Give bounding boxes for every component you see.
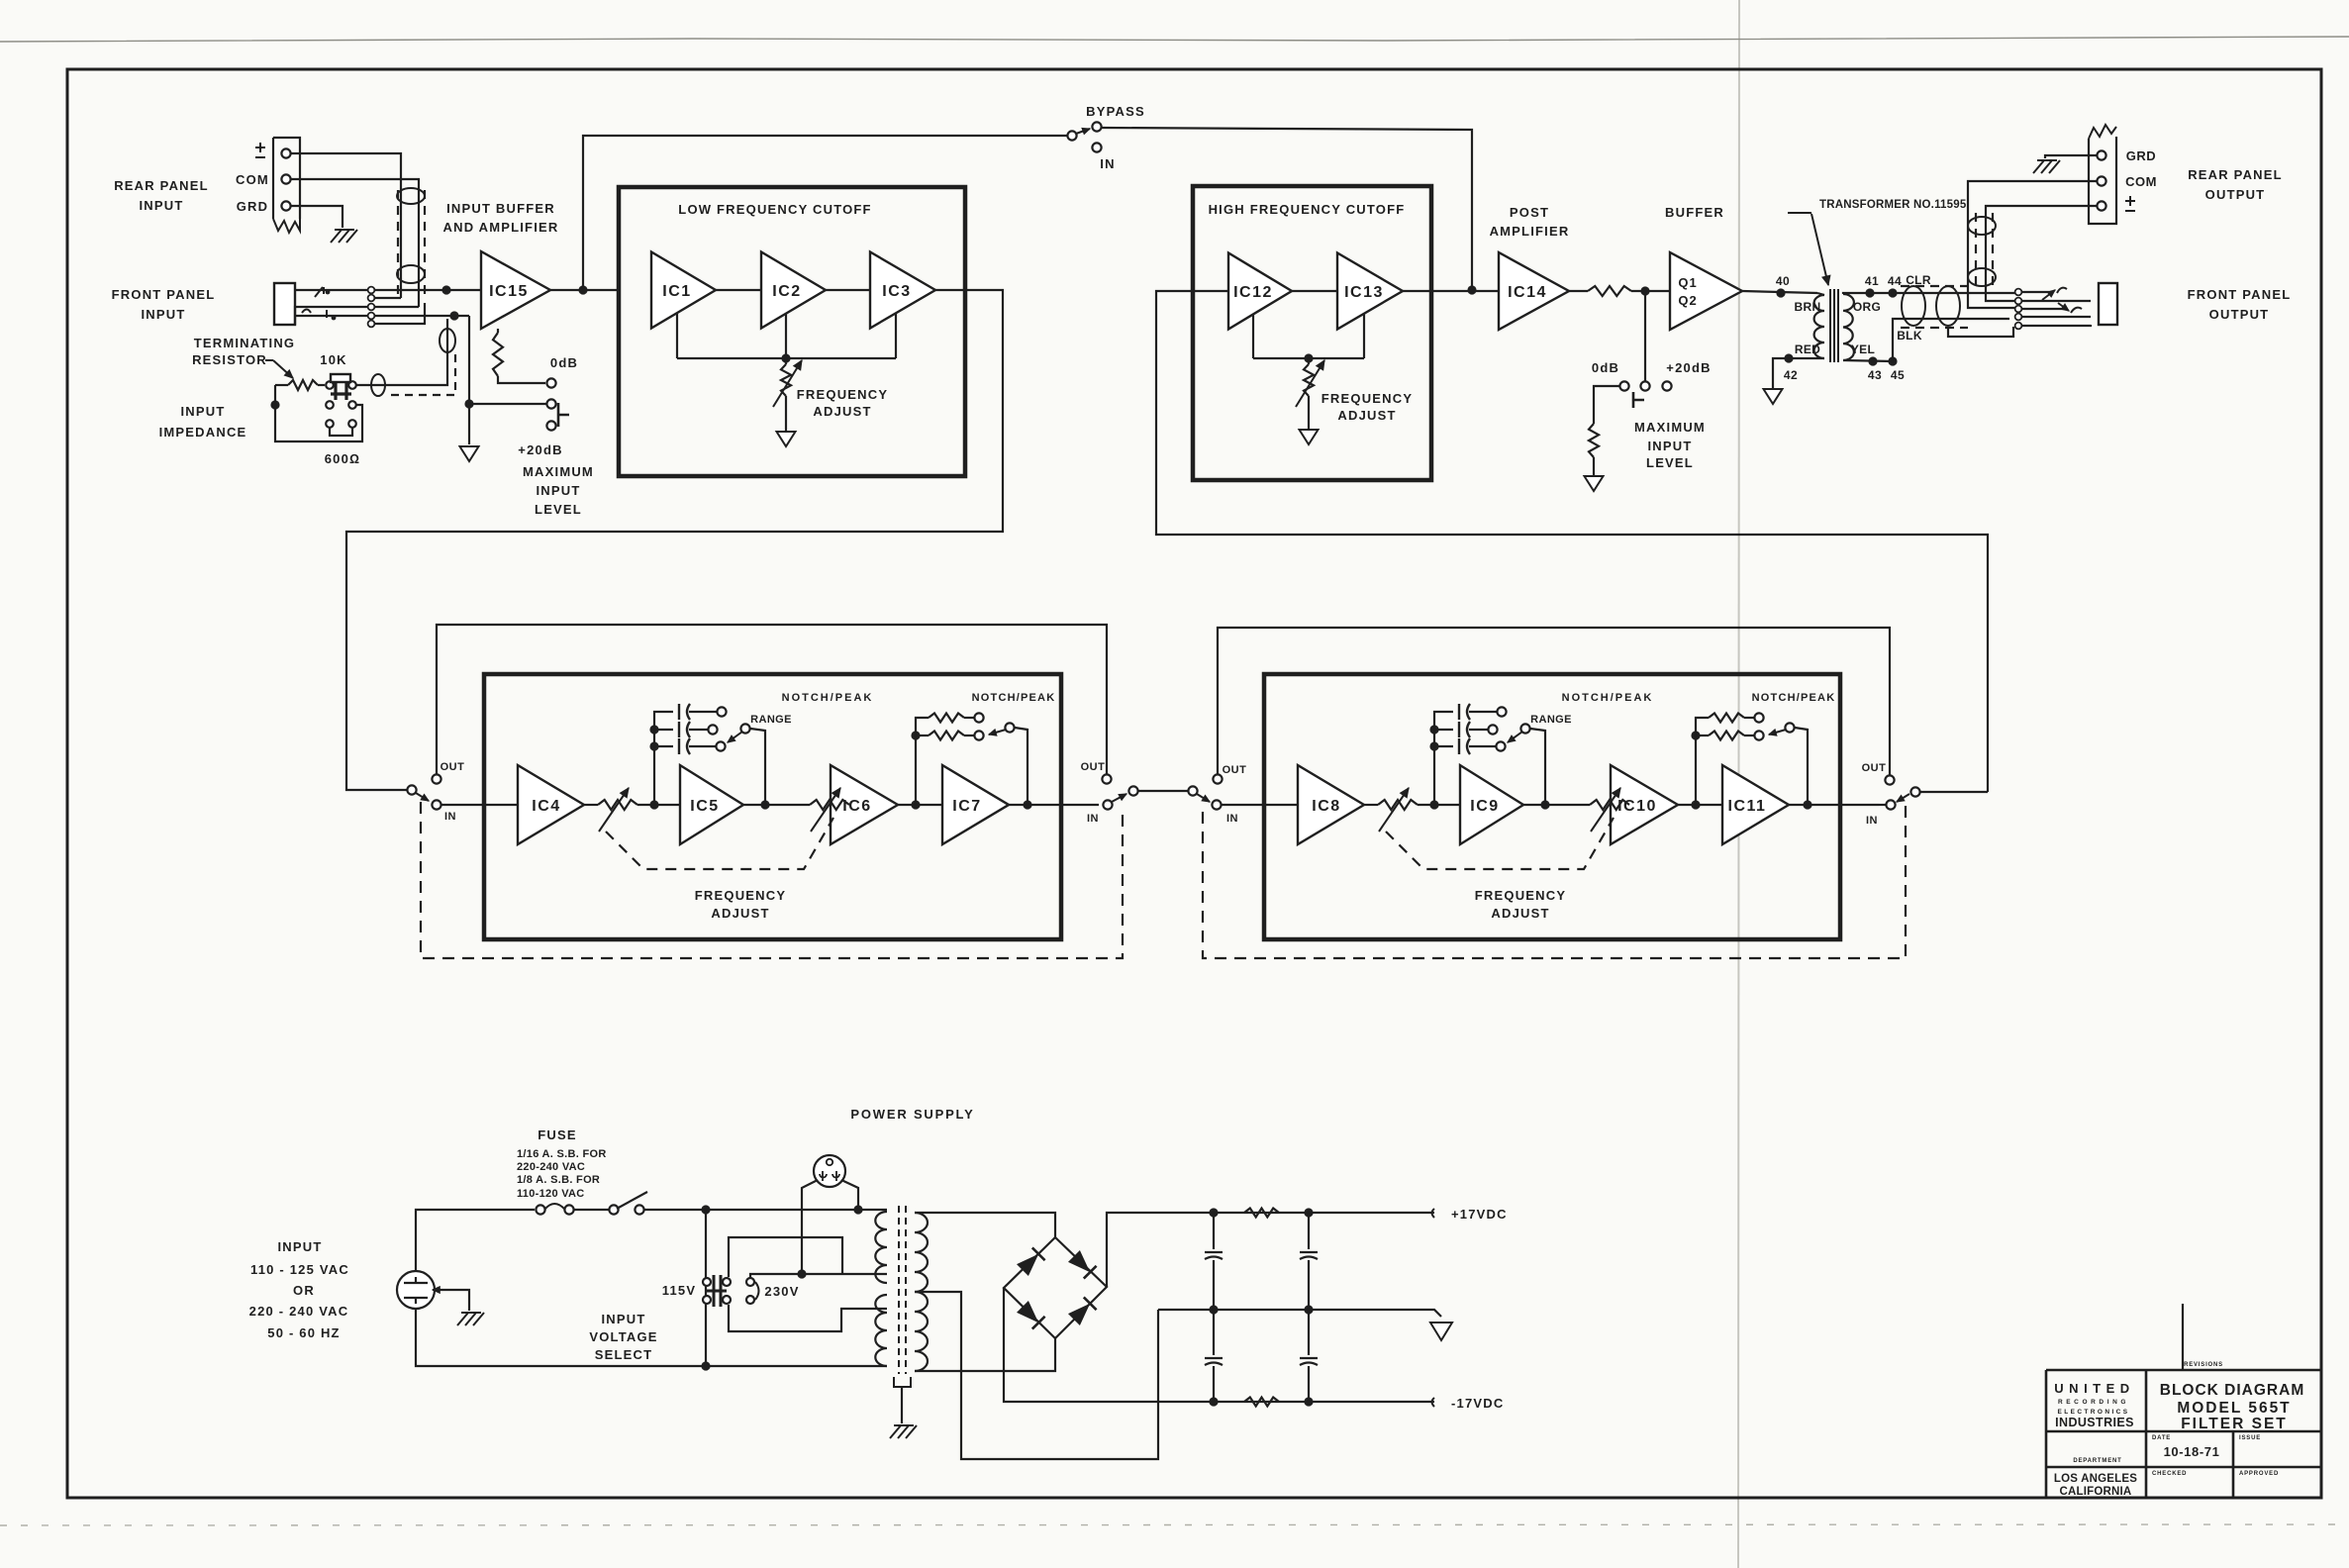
wire rear COM — [1968, 181, 2097, 308]
svg-text:OUTPUT: OUTPUT — [2209, 307, 2270, 322]
jack sleeve wires — [295, 307, 367, 325]
front input jack body — [274, 283, 295, 325]
svg-text:220 - 240 VAC: 220 - 240 VAC — [249, 1304, 349, 1319]
node mid rail 1 — [1209, 1305, 1218, 1314]
wire secondary bottom to bridge — [915, 1338, 1055, 1371]
svg-text:IN: IN — [1087, 813, 1099, 825]
wire IC2 to IC3 — [826, 289, 870, 291]
dashed gang frequency adjust — [1386, 818, 1614, 869]
capacitor range 1 — [1459, 704, 1470, 720]
fuse F1 — [536, 1205, 544, 1214]
paper bottom perforation — [0, 1524, 2349, 1525]
diode D1 — [1017, 1254, 1038, 1276]
terminal rear out plus-minus — [2097, 201, 2105, 210]
svg-text:OR: OR — [293, 1283, 315, 1298]
selector wiring tap — [750, 1274, 887, 1278]
contact notch 1 — [1754, 713, 1763, 722]
dashed link section1 — [421, 802, 1123, 958]
wire IC11 to end switch — [1879, 804, 1886, 806]
wire shield to BLK row — [1948, 327, 2013, 337]
wire range switch to line — [750, 729, 765, 805]
svg-text:INPUT: INPUT — [278, 1239, 323, 1254]
svg-text:IC15: IC15 — [489, 283, 529, 300]
svg-text:DATE: DATE — [2152, 1435, 2171, 1441]
wire end switch to return — [1920, 791, 1988, 793]
wire IC13 output to post amp — [1403, 290, 1499, 292]
node cap row2 — [649, 725, 658, 734]
svg-text:41: 41 — [1865, 274, 1879, 288]
wire IC3 output to loop — [346, 290, 1003, 790]
wire ac hot — [416, 1210, 535, 1271]
wire IC13 feedback stub — [1363, 314, 1365, 358]
svg-text:ISSUE: ISSUE — [2239, 1435, 2261, 1441]
bridge rectifier — [1004, 1237, 1107, 1338]
svg-text:IN: IN — [444, 811, 456, 823]
svg-text:ADJUST: ADJUST — [1337, 408, 1396, 423]
svg-text:REAR PANEL: REAR PANEL — [114, 178, 209, 193]
wire impedance left rail — [275, 385, 362, 441]
rear cable shield loop upper — [1968, 217, 1996, 235]
svg-text:TERMINATING: TERMINATING — [194, 336, 296, 350]
svg-text:INPUT: INPUT — [537, 483, 581, 498]
svg-text:BUFFER: BUFFER — [1665, 205, 1724, 220]
op-amp IC1 — [651, 252, 716, 329]
contact section1 out right — [1102, 774, 1111, 783]
wire feedback bus — [677, 357, 896, 359]
cable shield loop upper — [397, 188, 425, 204]
wire bridge minus riser — [1004, 1288, 1214, 1402]
node minus rail 1 — [1209, 1397, 1218, 1406]
node res row2 — [1691, 731, 1700, 739]
wire lamp left — [802, 1180, 818, 1274]
svg-text:+17VDC: +17VDC — [1451, 1207, 1508, 1222]
wire IC12 feedback stub — [1252, 315, 1254, 358]
svg-text:COM: COM — [236, 172, 269, 187]
svg-text:POWER SUPPLY: POWER SUPPLY — [850, 1107, 974, 1122]
jack contact pins — [368, 287, 375, 294]
contact notch 2 — [974, 731, 983, 739]
wire pad to ground resistor — [1594, 386, 1620, 424]
switch BYPASS — [1067, 131, 1076, 140]
svg-text:IN: IN — [1100, 156, 1115, 171]
wire 20dB pad drop — [1644, 291, 1646, 381]
wire amp2 out — [743, 804, 810, 806]
contacts output pad — [1619, 381, 1628, 390]
contact range 1 — [717, 707, 726, 716]
voltage selector 230V contacts — [746, 1278, 754, 1286]
svg-text:RANGE: RANGE — [1530, 714, 1572, 726]
resistor notch 2 — [1696, 735, 1709, 736]
op-amp IC5 — [680, 765, 743, 844]
wire res bank riser — [916, 718, 929, 805]
contact range 1 — [1497, 707, 1506, 716]
node cap row3 — [649, 741, 658, 750]
ac line plug — [397, 1271, 435, 1309]
svg-text:0dB: 0dB — [550, 355, 578, 370]
wire cap bank riser — [654, 712, 673, 805]
wire to 0dB contact — [498, 376, 545, 383]
wire IC3 feedback stub — [895, 314, 897, 358]
capacitor C4 — [1308, 1310, 1310, 1355]
svg-text:44: 44 — [1888, 274, 1902, 288]
node bypass rejoin — [1467, 285, 1476, 294]
op-amp IC8 — [1298, 765, 1364, 844]
wire bypass to post amp — [1102, 128, 1472, 290]
svg-text:IC5: IC5 — [690, 798, 719, 815]
leader arrow to resistor — [265, 359, 273, 361]
svg-text:IC14: IC14 — [1508, 284, 1547, 301]
terminal pin plus-minus — [281, 148, 290, 157]
op-amp IC9 — [1460, 765, 1523, 844]
wire pad resistor to ground — [1593, 457, 1595, 475]
svg-text:RESISTOR: RESISTOR — [192, 352, 267, 367]
cable loop at switch — [371, 374, 385, 396]
node pin 44 — [1888, 288, 1897, 297]
ground rear output — [2033, 160, 2060, 173]
svg-text:BLK: BLK — [1897, 329, 1922, 343]
svg-text:INPUT: INPUT — [1648, 439, 1693, 453]
svg-text:ADJUST: ADJUST — [711, 906, 769, 921]
svg-text:IC2: IC2 — [772, 283, 801, 300]
svg-text:APPROVED: APPROVED — [2239, 1471, 2279, 1477]
wire amp3 out — [898, 804, 942, 806]
wire rear GRD to ground — [2045, 155, 2097, 158]
wire to voltage select — [643, 1209, 887, 1211]
svg-text:IN: IN — [1866, 815, 1878, 827]
block LOW FREQUENCY CUTOFF — [619, 187, 965, 476]
svg-text:MAXIMUM: MAXIMUM — [523, 464, 594, 479]
title block frame — [2046, 1370, 2320, 1498]
variable resistor freq 2 — [810, 800, 849, 810]
mid rail 0V — [1158, 1310, 1441, 1317]
svg-text:AND AMPLIFIER: AND AMPLIFIER — [443, 220, 559, 235]
wire to +20dB contact — [469, 403, 546, 405]
contact section1 out — [432, 774, 440, 783]
contact range 2 — [1488, 725, 1497, 734]
node max input level tap — [1640, 286, 1649, 295]
wire IC2 feedback stub — [785, 314, 787, 358]
svg-text:OUT: OUT — [1081, 761, 1106, 773]
svg-text:10-18-71: 10-18-71 — [2164, 1444, 2220, 1459]
terminal pin COM — [281, 174, 290, 183]
switch RANGE — [1520, 724, 1529, 733]
wire rear plus — [1986, 206, 2097, 301]
svg-text:IC1: IC1 — [662, 283, 691, 300]
svg-text:GRD: GRD — [237, 199, 269, 214]
svg-text:FREQUENCY: FREQUENCY — [1321, 391, 1413, 406]
svg-text:AMPLIFIER: AMPLIFIER — [1490, 224, 1570, 239]
svg-text:ELECTRONICS: ELECTRONICS — [2058, 1409, 2130, 1416]
svg-text:RANGE: RANGE — [750, 714, 792, 726]
svg-text:+20dB: +20dB — [1666, 360, 1711, 375]
svg-text:VOLTAGE: VOLTAGE — [589, 1329, 657, 1344]
svg-text:45: 45 — [1891, 368, 1905, 382]
wire secondary top — [1843, 293, 2015, 294]
wire IC14 output — [1569, 290, 1588, 292]
page fold crease line — [1738, 0, 1739, 1568]
svg-text:1/16 A. S.B. FOR: 1/16 A. S.B. FOR — [517, 1148, 607, 1160]
wire rear plus to cable — [291, 153, 401, 298]
variable resistor freq 1 — [1378, 800, 1418, 810]
wire notch switch drop — [1795, 728, 1808, 805]
switch RANGE — [740, 724, 749, 733]
wire secondary top to bridge — [915, 1213, 1055, 1237]
svg-text:IC8: IC8 — [1312, 798, 1340, 815]
svg-text:MODEL 565T: MODEL 565T — [2177, 1400, 2291, 1417]
label -17VDC — [1432, 1398, 1435, 1407]
front output ring wires — [2022, 308, 2065, 310]
wire section1 bypass — [437, 625, 1107, 774]
switch section2 output — [1886, 800, 1895, 809]
node plus rail 2 — [1304, 1208, 1313, 1217]
node cap bank tap — [1429, 800, 1438, 809]
contact range 3 — [716, 741, 725, 750]
node pin 41 — [1865, 288, 1874, 297]
capacitor range 2 — [654, 729, 673, 731]
svg-text:INPUT: INPUT — [142, 307, 186, 322]
svg-text:IMPEDANCE: IMPEDANCE — [159, 425, 247, 440]
svg-text:50 - 60 HZ: 50 - 60 HZ — [267, 1325, 340, 1340]
svg-text:YEL: YEL — [1851, 343, 1875, 356]
label +17VDC — [1432, 1209, 1435, 1218]
capacitor range 1 — [679, 704, 690, 720]
wire cap bank riser — [1434, 712, 1453, 805]
variable resistor frequency adjust LF — [785, 358, 787, 364]
resistor minus rail — [1244, 1398, 1279, 1407]
wire into IC8 — [1222, 804, 1298, 806]
wire tip to IC15 input — [375, 289, 481, 291]
svg-text:BRN: BRN — [1795, 300, 1821, 314]
svg-text:IC3: IC3 — [882, 283, 911, 300]
node select top — [701, 1205, 710, 1214]
wire ring junction — [375, 315, 469, 317]
svg-text:SELECT: SELECT — [595, 1347, 652, 1362]
switch section1 input — [407, 785, 416, 794]
svg-text:IC6: IC6 — [842, 798, 871, 815]
svg-text:FREQUENCY: FREQUENCY — [695, 888, 786, 903]
wire amp4 out — [1009, 804, 1099, 806]
rear input connector strip — [273, 138, 300, 219]
svg-text:INPUT BUFFER: INPUT BUFFER — [446, 201, 555, 216]
transformer T2 shield to ground — [894, 1377, 911, 1387]
wire feedback bus HF — [1253, 357, 1364, 359]
minus rail — [1214, 1401, 1434, 1403]
cable shield loop lower — [397, 265, 425, 283]
svg-text:RED: RED — [1795, 343, 1820, 356]
resistor notch 1 — [1709, 714, 1744, 723]
capacitor range 3 — [654, 745, 673, 747]
pilot lamp — [814, 1155, 845, 1187]
node res row2 — [911, 731, 920, 739]
svg-text:OUT: OUT — [1862, 762, 1887, 774]
wire IC1 to IC2 — [716, 289, 761, 291]
resistor post amp — [1588, 286, 1631, 296]
svg-text:IC7: IC7 — [952, 798, 981, 815]
node impedance rail — [270, 400, 279, 409]
svg-text:BLOCK DIAGRAM: BLOCK DIAGRAM — [2160, 1382, 2304, 1399]
switch power — [609, 1205, 618, 1214]
front output sleeve wire — [2022, 325, 2091, 326]
svg-text:OUT: OUT — [440, 761, 465, 773]
node plus rail 1 — [1209, 1208, 1218, 1217]
front output tip wires — [2022, 291, 2049, 293]
op-amp IC7 — [942, 765, 1009, 844]
svg-text:POST: POST — [1510, 205, 1549, 220]
wire amp1 to varres — [584, 804, 598, 806]
wire bypass riser — [583, 136, 1067, 290]
wire IC12 to IC13 — [1292, 290, 1337, 292]
svg-text:COM: COM — [2125, 174, 2157, 189]
svg-text:ORG: ORG — [1853, 300, 1881, 314]
wire amp4 out — [1789, 804, 1879, 806]
node pin 43 — [1868, 356, 1877, 365]
svg-text:FUSE: FUSE — [538, 1127, 576, 1142]
svg-text:1/8 A. S.B. FOR: 1/8 A. S.B. FOR — [517, 1174, 600, 1186]
capacitor range 3 — [1434, 745, 1453, 747]
svg-text:FREQUENCY: FREQUENCY — [1475, 888, 1566, 903]
output cable shield loop 1 — [1902, 286, 1925, 326]
contact section2 out right — [1885, 775, 1894, 784]
dashed gang frequency adjust — [606, 818, 833, 869]
svg-text:FRONT PANEL: FRONT PANEL — [2188, 287, 2292, 302]
svg-text:REAR PANEL: REAR PANEL — [2188, 167, 2283, 182]
diode D2 — [1068, 1250, 1090, 1272]
wire ring node down to ground — [468, 316, 470, 444]
node pin 40 — [1776, 288, 1785, 297]
output cable shield dashed — [1901, 285, 1968, 287]
svg-text:ADJUST: ADJUST — [813, 404, 871, 419]
op-amp IC10 — [1611, 765, 1678, 844]
node range tap — [760, 800, 769, 809]
svg-text:IC13: IC13 — [1344, 284, 1384, 301]
svg-text:HIGH FREQUENCY CUTOFF: HIGH FREQUENCY CUTOFF — [1209, 202, 1406, 217]
svg-text:CHECKED: CHECKED — [2152, 1471, 2187, 1477]
op-amp IC13 — [1337, 253, 1403, 330]
svg-text:IC11: IC11 — [1728, 798, 1767, 815]
wire to ground HF — [1308, 396, 1310, 430]
transformer T1 core — [1829, 289, 1831, 362]
svg-text:LOW FREQUENCY CUTOFF: LOW FREQUENCY CUTOFF — [678, 202, 871, 217]
transformer T1 primary — [1817, 293, 1824, 295]
wire amp1 to varres — [1364, 804, 1378, 806]
wire section return to HF input — [1156, 291, 1988, 792]
svg-text:FREQUENCY: FREQUENCY — [797, 387, 888, 402]
svg-text:IN: IN — [1226, 813, 1238, 825]
variable resistor freq 2 — [1590, 800, 1629, 810]
transformer T2 secondary — [915, 1213, 928, 1371]
node select bottom — [701, 1361, 710, 1370]
svg-text:OUT: OUT — [1223, 764, 1247, 776]
svg-text:Q1: Q1 — [1678, 275, 1697, 290]
revisions divider — [2182, 1304, 2184, 1370]
svg-text:MAXIMUM: MAXIMUM — [1634, 420, 1706, 435]
node IC15 output bypass tap — [578, 285, 587, 294]
switch NOTCH/PEAK — [1785, 723, 1794, 732]
rear cable shield loop lower — [1968, 268, 1996, 286]
contact notch 2 — [1754, 731, 1763, 739]
transistors Q1 Q2 buffer — [1670, 252, 1742, 330]
node minus rail 2 — [1304, 1397, 1313, 1406]
node mid rail 2 — [1304, 1305, 1313, 1314]
svg-text:IC12: IC12 — [1233, 284, 1273, 301]
node jack ring junction — [449, 311, 458, 320]
front output jack pins — [2015, 289, 2022, 296]
ground pad — [1585, 476, 1604, 491]
block HIGH FREQUENCY CUTOFF — [1193, 186, 1431, 480]
ground input stage — [460, 446, 479, 461]
ground HF box — [1300, 430, 1319, 444]
wire buffer output — [1742, 291, 1817, 293]
svg-text:ADJUST: ADJUST — [1491, 906, 1549, 921]
front output jack body — [2099, 283, 2117, 325]
node resistor bank tap — [911, 800, 920, 809]
contact +20dB input switch — [546, 399, 555, 408]
wire amp3 out — [1678, 804, 1722, 806]
svg-text:110-120 VAC: 110-120 VAC — [517, 1188, 585, 1200]
svg-text:600Ω: 600Ω — [325, 451, 360, 466]
transformer T2 primary — [875, 1212, 887, 1283]
svg-text:INPUT: INPUT — [602, 1312, 646, 1326]
svg-text:REVISIONS: REVISIONS — [2184, 1362, 2223, 1368]
svg-text:DEPARTMENT: DEPARTMENT — [2073, 1458, 2121, 1464]
rear output connector strip — [2089, 137, 2116, 224]
svg-text:40: 40 — [1776, 274, 1790, 288]
transformer T1 secondary — [1843, 294, 1854, 360]
wire res bank riser — [1696, 718, 1709, 805]
wire to buffer — [1631, 290, 1670, 292]
svg-text:INPUT: INPUT — [140, 198, 184, 213]
svg-text:LEVEL: LEVEL — [1646, 455, 1694, 470]
node notch switch join — [1803, 800, 1811, 809]
node jack tip junction — [441, 285, 450, 294]
ground transformer primary — [1764, 389, 1783, 404]
svg-text:NOTCH/PEAK: NOTCH/PEAK — [1752, 692, 1836, 704]
svg-text:INDUSTRIES: INDUSTRIES — [2055, 1416, 2134, 1429]
block notch-peak filter IC4-IC7 — [484, 674, 1061, 939]
dashed link section2 — [1203, 804, 1906, 958]
wire primary return to ground — [1773, 358, 1824, 388]
svg-text:OUTPUT: OUTPUT — [2205, 187, 2266, 202]
wire secondary center tap — [915, 1292, 1158, 1459]
svg-text:42: 42 — [1784, 368, 1798, 382]
wire IC15 output — [550, 289, 619, 291]
svg-text:GRD: GRD — [2126, 148, 2156, 163]
wire to ground LF — [785, 396, 787, 432]
op-amp IC4 — [518, 765, 584, 844]
svg-text:115V: 115V — [662, 1283, 696, 1298]
voltage selector 115V — [705, 1210, 707, 1366]
node cap row3 — [1429, 741, 1438, 750]
op-amp IC15 — [481, 251, 550, 329]
wire secondary bottom — [1843, 360, 1893, 361]
impedance switch contacts — [326, 381, 334, 389]
block notch-peak filter IC8-IC11 — [1264, 674, 1840, 939]
svg-text:+20dB: +20dB — [518, 442, 562, 457]
jack ring contact arm — [295, 315, 367, 317]
svg-text:-17VDC: -17VDC — [1451, 1396, 1504, 1411]
svg-text:UNITED: UNITED — [2054, 1381, 2134, 1396]
ground ac plug — [457, 1313, 484, 1325]
svg-text:TRANSFORMER NO.11595: TRANSFORMER NO.11595 — [1819, 199, 1967, 211]
contact 0dB input — [546, 378, 555, 387]
op-amp IC3 — [870, 252, 935, 329]
rear output cable shield — [1975, 213, 1977, 289]
svg-text:Q2: Q2 — [1678, 293, 1697, 308]
capacitor range 2 — [1434, 729, 1453, 731]
terminal rear out GRD — [2097, 150, 2105, 159]
svg-text:220-240 VAC: 220-240 VAC — [517, 1161, 585, 1173]
svg-text:NOTCH/PEAK: NOTCH/PEAK — [1562, 692, 1654, 704]
